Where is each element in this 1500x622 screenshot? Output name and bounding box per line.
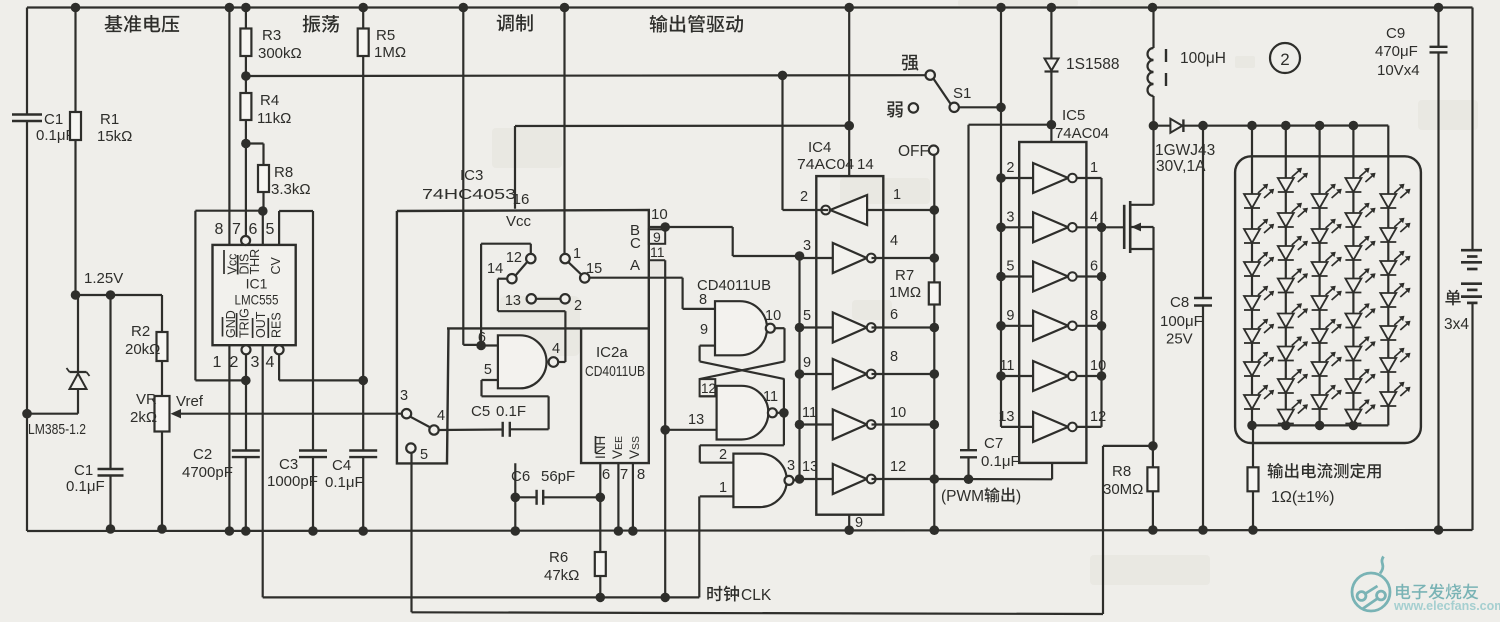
header label 振荡 xyxy=(303,15,321,33)
svg-text:6: 6 xyxy=(249,221,258,238)
svg-text:2: 2 xyxy=(574,298,582,314)
svg-text:2: 2 xyxy=(230,354,239,371)
IC5 inverter row4 pins 9-8 xyxy=(1033,311,1068,341)
svg-text:1MΩ: 1MΩ xyxy=(374,44,406,61)
svg-text:8: 8 xyxy=(1090,308,1098,324)
wire Vref with arrow into VR wiper xyxy=(176,413,402,415)
svg-text:C2: C2 xyxy=(193,446,212,463)
inductor 100uH xyxy=(1152,8,1154,49)
wire C5 to gate input 5 xyxy=(510,428,549,430)
svg-text:0.1μF: 0.1μF xyxy=(325,474,364,491)
wire clock CLK line xyxy=(263,596,700,598)
IC4 row1 input 1 wire xyxy=(867,209,934,211)
resistor R3 300k xyxy=(245,8,247,29)
LED D3-3 xyxy=(1312,262,1328,276)
svg-text:1S1588: 1S1588 xyxy=(1066,56,1119,73)
LED D5-4 xyxy=(1380,293,1396,307)
svg-text:100μF: 100μF xyxy=(1160,313,1203,330)
svg-text:R3: R3 xyxy=(262,27,281,44)
OFF contact xyxy=(929,146,938,155)
svg-text:14: 14 xyxy=(857,156,874,173)
wire contact 5 feedback down xyxy=(410,453,412,613)
wire left rail xyxy=(26,8,28,115)
LED D1-4 xyxy=(1244,296,1260,310)
MOSFET Q1 substrate arrow xyxy=(1130,226,1153,228)
IC4 input bus xyxy=(798,256,800,479)
svg-text:9: 9 xyxy=(855,515,863,531)
wire gate drive to MOSFET xyxy=(1102,226,1125,228)
svg-text:30MΩ: 30MΩ xyxy=(1103,481,1143,498)
svg-text:LM385-1.2: LM385-1.2 xyxy=(28,421,86,438)
junction dot diode-C7 node xyxy=(1047,120,1057,130)
svg-text:LMC555: LMC555 xyxy=(235,292,279,308)
LED array box xyxy=(1235,156,1421,443)
resistor R2 xyxy=(161,295,163,332)
svg-text:9: 9 xyxy=(653,229,661,245)
svg-text:13: 13 xyxy=(505,293,521,309)
svg-text:5: 5 xyxy=(1006,259,1014,275)
IC3 switch contact 2 xyxy=(560,294,569,303)
svg-text:C: C xyxy=(630,235,641,252)
wire IC3 pin11 clock vertical xyxy=(664,260,666,597)
IC3 74HC4053 box xyxy=(397,210,649,463)
LED D2-6 xyxy=(1278,347,1294,361)
svg-text:14: 14 xyxy=(487,261,503,277)
wire OUT pin3 down xyxy=(262,345,264,597)
capacitor C1 top-left xyxy=(12,113,42,115)
svg-text:1: 1 xyxy=(213,354,222,371)
svg-text:15: 15 xyxy=(586,261,602,277)
LED D5-7 xyxy=(1380,392,1396,406)
svg-text:11: 11 xyxy=(802,405,817,421)
wire TRIG bracket xyxy=(195,379,245,381)
IC1 LMC555 box xyxy=(213,245,296,345)
capacitor C4 0.1uF xyxy=(349,449,377,451)
svg-text:): ) xyxy=(1016,488,1021,505)
wire RES pin4 to R5 line xyxy=(278,354,280,380)
capacitor C3 1000pF xyxy=(299,449,327,451)
svg-text:R6: R6 xyxy=(549,549,568,566)
NAND gate A pins 8 9 10 xyxy=(715,301,767,355)
svg-text:3.3kΩ: 3.3kΩ xyxy=(271,181,311,198)
NAND IC2a input 6 wire xyxy=(481,344,498,346)
svg-text:9: 9 xyxy=(700,322,708,338)
resistor R1 xyxy=(74,8,76,113)
svg-text:6: 6 xyxy=(1090,259,1098,275)
svg-text:8: 8 xyxy=(637,466,645,483)
svg-text:74AC04: 74AC04 xyxy=(797,156,854,173)
svg-text:1: 1 xyxy=(893,187,901,203)
LED D1-3 xyxy=(1244,262,1260,276)
svg-text:100μH: 100μH xyxy=(1180,50,1226,67)
IC5 inverter row6 pins 13-12 xyxy=(1033,412,1068,442)
svg-text:R5: R5 xyxy=(376,27,395,44)
svg-text:10: 10 xyxy=(1090,358,1106,374)
svg-text:6: 6 xyxy=(478,330,486,346)
svg-text:11: 11 xyxy=(999,358,1014,374)
svg-text:1: 1 xyxy=(1090,160,1098,176)
svg-text:11: 11 xyxy=(763,389,778,405)
LED D4-4 xyxy=(1345,279,1361,293)
svg-text:13: 13 xyxy=(802,459,818,475)
svg-text:12: 12 xyxy=(890,459,906,475)
svg-text:5: 5 xyxy=(803,308,811,324)
potentiometer VR 2k xyxy=(155,396,170,432)
header label 输出管驱动 xyxy=(650,15,668,33)
LED column 4 wire xyxy=(1352,126,1354,426)
latch cross coupling diagonals xyxy=(700,361,785,379)
svg-text:5: 5 xyxy=(420,447,428,463)
svg-text:R7: R7 xyxy=(895,267,914,284)
IC3 pin16 Vcc wire xyxy=(514,126,516,209)
IC3 switch contact 12 xyxy=(526,254,535,263)
svg-text:1: 1 xyxy=(719,480,727,496)
svg-text:IC5: IC5 xyxy=(1062,107,1085,124)
junction dot clock-pin11 net xyxy=(660,593,670,603)
wire select net to IC4 input 3 xyxy=(732,227,734,256)
junction dot R4 bottom xyxy=(241,139,251,149)
capacitor C9 470uF xyxy=(1437,8,1439,47)
svg-text:7: 7 xyxy=(232,221,241,238)
MOSFET Q1 drain stub xyxy=(1130,204,1153,206)
diode 1S1588 xyxy=(1050,8,1052,143)
svg-text:9: 9 xyxy=(1006,308,1014,324)
svg-text:1GWJ43: 1GWJ43 xyxy=(1155,142,1215,159)
LED D5-5 xyxy=(1380,326,1396,340)
wire IC5 pin7 to PWM xyxy=(1051,463,1053,479)
svg-text:0.1F: 0.1F xyxy=(496,403,526,420)
IC3 pin 9 cell xyxy=(649,229,665,244)
wire 1.25V node xyxy=(74,294,162,296)
wire VSS pin8 to rail xyxy=(632,463,634,531)
capacitor C1 bottom xyxy=(109,295,111,469)
label 时钟CLK xyxy=(707,586,722,601)
LED D2-5 xyxy=(1278,314,1294,328)
wire Vcc-to-NAND vertical xyxy=(462,8,464,345)
svg-text:(PWM: (PWM xyxy=(941,488,984,505)
wire contact 4 to C5 xyxy=(439,428,503,431)
IC4 Vcc pin14 wire xyxy=(848,8,850,177)
junction dot R8 to THR xyxy=(258,206,268,216)
gate C output 3 wire xyxy=(794,479,800,480)
svg-text:13: 13 xyxy=(998,409,1014,425)
NAND IC2a output 4 wire xyxy=(558,361,565,363)
svg-text:S1: S1 xyxy=(953,85,971,102)
wire CV pin5 bracket to C3 xyxy=(278,211,280,245)
resistor R8 30M xyxy=(1152,446,1154,467)
svg-text:VR: VR xyxy=(136,391,157,408)
IC4 inverter row4 pins 9-8 xyxy=(833,359,867,389)
wire PWM output row xyxy=(934,478,1052,480)
svg-text:3x4: 3x4 xyxy=(1444,316,1469,333)
IC3 switch contact 5 xyxy=(406,443,415,452)
svg-text:www.elecfans.com: www.elecfans.com xyxy=(1393,599,1500,613)
svg-text:THR: THR xyxy=(248,249,262,275)
MOSFET Q1 channel bar xyxy=(1129,201,1132,253)
svg-text:16: 16 xyxy=(513,191,530,208)
capacitor C6 56pF xyxy=(514,463,516,531)
svg-text:C4: C4 xyxy=(332,457,351,474)
LED D1-2 xyxy=(1244,229,1260,243)
junction dot RES-R5 node xyxy=(358,376,368,386)
svg-text:11kΩ: 11kΩ xyxy=(257,110,291,127)
junction dot 1.25V node xyxy=(71,290,81,300)
wire DIS pin7 down to bubble xyxy=(245,144,247,237)
LED D5-3 xyxy=(1380,261,1396,275)
wire VEE pin7 to rail xyxy=(617,463,619,531)
junction dot R8 sense node xyxy=(1148,441,1158,451)
LED D4-5 xyxy=(1345,314,1361,328)
S1 weak contact xyxy=(909,103,918,112)
IC5 output bus xyxy=(1100,178,1102,427)
label 强 xyxy=(902,55,919,71)
junction dot R3-R4 xyxy=(241,71,251,81)
svg-text:TRIG: TRIG xyxy=(237,308,251,338)
svg-text:0.1μF: 0.1μF xyxy=(36,127,75,144)
svg-text:IC2a: IC2a xyxy=(596,344,628,361)
svg-text:2: 2 xyxy=(800,189,808,205)
svg-text:30V,1A: 30V,1A xyxy=(1156,158,1206,175)
svg-text:R4: R4 xyxy=(260,92,279,109)
wire THR bracket xyxy=(195,210,262,212)
svg-text:5: 5 xyxy=(484,362,492,378)
MOSFET Q1 gate bar xyxy=(1123,205,1126,249)
svg-text:10: 10 xyxy=(765,308,781,324)
junction dot PWM-C7 xyxy=(964,474,974,484)
LED D2-3 xyxy=(1278,246,1294,260)
wire bottom ground rail xyxy=(27,530,1473,531)
IC1 DIS input bubble pin7 xyxy=(241,236,250,245)
svg-text:1Ω(±1%): 1Ω(±1%) xyxy=(1271,489,1334,506)
LED D3-6 xyxy=(1312,362,1328,376)
svg-text:3: 3 xyxy=(1006,209,1014,225)
svg-text:10: 10 xyxy=(890,405,906,421)
resistor 1 ohm current sense xyxy=(1252,425,1254,467)
svg-text:C1: C1 xyxy=(44,111,63,128)
IC1 RES bubble pin4 xyxy=(275,345,284,354)
header label 调制 xyxy=(497,14,514,31)
IC5 inverter row3 pins 5-6 xyxy=(1033,262,1068,292)
svg-text:3: 3 xyxy=(400,388,408,404)
svg-text:C3: C3 xyxy=(279,456,298,473)
svg-text:1000pF: 1000pF xyxy=(267,473,318,490)
MOSFET Q1 source stub xyxy=(1130,248,1153,250)
LED D1-5 xyxy=(1244,329,1260,343)
junction dot R6 clock xyxy=(596,593,606,603)
S1 strong contact xyxy=(926,70,935,79)
svg-text:56pF: 56pF xyxy=(541,468,575,485)
svg-text:C7: C7 xyxy=(984,435,1003,452)
wire IC1 Vcc pin8 to top rail xyxy=(228,8,230,246)
NAND gate B pins 12 13 11 xyxy=(717,386,769,440)
header label 基准电压 xyxy=(105,15,123,32)
IC4 inverter row1 flipped pins 1-2 xyxy=(830,195,867,225)
wire top supply rail xyxy=(27,6,1473,8)
svg-text:OFF: OFF xyxy=(898,143,929,160)
LED D3-1 xyxy=(1312,194,1328,208)
svg-text:R1: R1 xyxy=(100,111,119,128)
watermark text xyxy=(1396,584,1410,599)
junction dot C6-INH xyxy=(596,493,606,503)
svg-text:OUT: OUT xyxy=(254,311,268,338)
wire pin15 to gate input 8 xyxy=(589,277,682,279)
svg-text:2kΩ: 2kΩ xyxy=(130,409,157,426)
svg-text:4: 4 xyxy=(1090,209,1098,225)
svg-text:1: 1 xyxy=(573,246,581,262)
svg-text:8: 8 xyxy=(890,349,898,365)
capacitor C8 100uF 25V xyxy=(1202,126,1204,298)
LED D2-4 xyxy=(1278,279,1294,293)
svg-text:IC4: IC4 xyxy=(808,139,831,156)
svg-text:1MΩ: 1MΩ xyxy=(889,284,921,301)
svg-text:9: 9 xyxy=(803,355,811,371)
IC4 output bus with OFF wire xyxy=(933,155,935,282)
LED D3-2 xyxy=(1312,229,1328,243)
LED D2-8 xyxy=(1278,410,1294,424)
gate B input 13 wire xyxy=(665,429,716,431)
svg-text:C5: C5 xyxy=(471,403,490,420)
svg-text:C1: C1 xyxy=(74,462,93,479)
LED column 2 wire xyxy=(1285,126,1287,426)
wire S1 common xyxy=(959,106,1001,108)
svg-text:Vcc: Vcc xyxy=(506,213,532,230)
wire right rail to battery xyxy=(1471,8,1473,251)
capacitor C5 0.1F xyxy=(502,422,504,437)
svg-text:A: A xyxy=(630,257,640,274)
junction dot drain node xyxy=(1149,121,1159,131)
resistor R8 3.3k oscillator xyxy=(246,142,264,144)
NAND gate IC2a xyxy=(498,335,547,388)
IC3 switch lever 3-4 xyxy=(411,417,430,427)
svg-text:RES: RES xyxy=(270,312,284,338)
svg-text:7: 7 xyxy=(620,466,628,483)
IC4 inverter row3 pins 5-6 xyxy=(833,313,867,343)
svg-text:15kΩ: 15kΩ xyxy=(97,128,132,145)
label current measuring xyxy=(1268,463,1284,478)
IC2a pin box xyxy=(581,327,648,329)
S1 moving contact xyxy=(950,103,959,112)
battery label xyxy=(1445,290,1460,306)
wire strong-select net R3R4 to S1 xyxy=(246,74,926,77)
wire TRIG pin2 to C2 xyxy=(245,354,247,450)
svg-text:R8: R8 xyxy=(1112,463,1131,480)
svg-text:1.25V: 1.25V xyxy=(84,270,123,287)
IC3 switch lever 13-2 xyxy=(536,298,560,300)
svg-text:47kΩ: 47kΩ xyxy=(544,567,579,584)
LED D3-7 xyxy=(1312,395,1328,409)
svg-text:2: 2 xyxy=(719,447,727,463)
svg-text:5: 5 xyxy=(266,221,275,238)
IC3 switch contact 1 xyxy=(560,254,569,263)
IC3 switch lever 14-12 xyxy=(516,262,528,275)
wire C7 top to diode node xyxy=(969,124,1052,126)
svg-text:C6: C6 xyxy=(511,468,530,485)
svg-text:CV: CV xyxy=(269,256,283,274)
LED D1-1 xyxy=(1244,194,1260,208)
svg-text:74AC04: 74AC04 xyxy=(1055,125,1109,142)
junction dot R1 top rail xyxy=(71,3,81,13)
wire sense feedback line y614 xyxy=(412,612,1104,614)
svg-text:Vref: Vref xyxy=(176,393,204,410)
LED D2-1 xyxy=(1278,178,1294,192)
svg-text:0.1μF: 0.1μF xyxy=(66,478,105,495)
IC3 switch contact 13 xyxy=(527,294,536,303)
svg-text:C9: C9 xyxy=(1386,25,1405,42)
svg-text:0.1μF: 0.1μF xyxy=(981,453,1020,470)
IC5 inverter row5 pins 11-10 xyxy=(1033,361,1068,391)
gate B output 11 wire xyxy=(777,412,784,414)
zener diode LM385-1.2 xyxy=(77,295,79,372)
svg-text:CD4011UB: CD4011UB xyxy=(585,364,645,380)
svg-text:13: 13 xyxy=(688,412,704,428)
svg-text:10: 10 xyxy=(651,206,668,223)
diode 1GWJ43 30V 1A xyxy=(1154,125,1171,127)
svg-text:4: 4 xyxy=(890,233,898,249)
IC4 inverter row5 pins 11-10 xyxy=(833,410,867,440)
LED D5-1 xyxy=(1380,194,1396,208)
LED D4-3 xyxy=(1345,246,1361,260)
IC3 switch contact 14 xyxy=(507,274,516,283)
svg-text:25V: 25V xyxy=(1166,331,1193,348)
page number circle 2 xyxy=(1270,43,1300,73)
wire LM385 anode to left rail xyxy=(27,413,78,415)
LED D5-2 xyxy=(1380,228,1396,242)
svg-text:2: 2 xyxy=(1006,160,1014,176)
LED D4-8 xyxy=(1345,410,1361,424)
resistor R6 47k xyxy=(599,551,601,553)
svg-text:R2: R2 xyxy=(131,323,150,340)
LED D2-7 xyxy=(1278,379,1294,393)
IC4 row1 output 2 wire xyxy=(783,209,829,211)
svg-text:VEE: VEE xyxy=(610,436,625,459)
LED bottom bus xyxy=(1252,424,1388,426)
svg-text:6: 6 xyxy=(602,466,610,483)
svg-text:4700pF: 4700pF xyxy=(182,464,233,481)
svg-text:8: 8 xyxy=(699,292,707,308)
IC1 TRIG bubble pin2 xyxy=(242,345,251,354)
battery 4 cells xyxy=(1461,249,1482,252)
LED column 3 wire xyxy=(1318,126,1320,426)
S1 lever xyxy=(934,79,951,104)
IC4 inverter row2 pins 3-4 xyxy=(833,243,867,273)
svg-text:3: 3 xyxy=(803,238,811,254)
gate C input 1 wire xyxy=(700,495,734,497)
resistor R5 1M xyxy=(362,8,364,29)
svg-text:2: 2 xyxy=(1280,50,1289,69)
IC3 switch lever 1-15 xyxy=(569,262,582,274)
svg-text:20kΩ: 20kΩ xyxy=(125,341,160,358)
IC4 74AC04 box xyxy=(816,176,883,515)
svg-text:VSS: VSS xyxy=(627,436,642,459)
label 弱 xyxy=(887,101,903,117)
wire contact 14 path xyxy=(498,278,507,280)
svg-text:8: 8 xyxy=(215,221,224,238)
gate A input 9 bracket xyxy=(700,345,715,347)
svg-text:10Vx4: 10Vx4 xyxy=(1377,62,1420,79)
LED D5-6 xyxy=(1380,358,1396,372)
svg-text:470μF: 470μF xyxy=(1375,43,1418,60)
LED D4-6 xyxy=(1345,347,1361,361)
IC4 GND pin9 wire xyxy=(848,515,850,531)
svg-text:74HC4053: 74HC4053 xyxy=(422,186,516,203)
svg-text:3: 3 xyxy=(251,354,260,371)
wire modulation vertical to contact 1 xyxy=(563,8,565,254)
IC3 switch contact 4 xyxy=(429,425,438,434)
svg-text:4: 4 xyxy=(552,341,560,357)
wire INH pin6 down through R6 xyxy=(599,463,601,552)
junction dot pins 9-10 xyxy=(660,222,670,232)
svg-text:4: 4 xyxy=(266,354,275,371)
